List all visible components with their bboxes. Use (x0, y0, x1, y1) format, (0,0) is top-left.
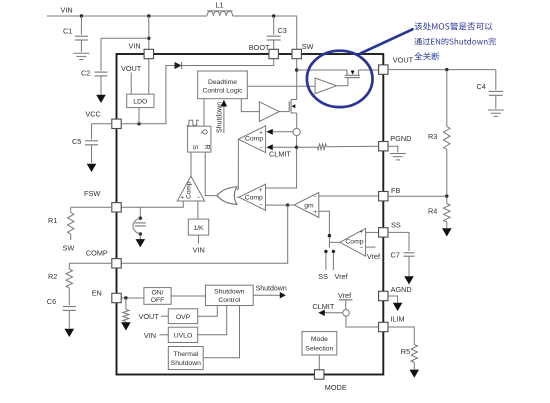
node SS select contact (324, 250, 327, 253)
svg-text:AGND: AGND (391, 285, 412, 294)
wire clmit net to minus arrow (273, 146, 297, 148)
svg-text:UVLO: UVLO (174, 333, 193, 340)
svg-text:VOUT: VOUT (121, 64, 142, 73)
svg-text:C2: C2 (81, 69, 90, 78)
wire ILIM pin to R5 (388, 327, 414, 345)
wire SW node to rectifier fet drain (297, 69, 347, 71)
ground earth below C1 (73, 52, 89, 54)
wire VOUT label to OVP (161, 315, 168, 317)
svg-text:COMP: COMP (86, 248, 108, 257)
pin VOUT (379, 65, 388, 74)
pin COMP (112, 259, 121, 268)
capacitor C1 (75, 16, 88, 52)
node junction clmit tap on sense line (295, 146, 298, 149)
node junction VOUT/R3 (445, 68, 448, 71)
svg-text:−: − (313, 194, 317, 200)
svg-text:Vref: Vref (367, 252, 381, 261)
amplifier gm error amp (points left) (294, 192, 319, 217)
capacitor C2 (95, 38, 149, 94)
svg-text:C1: C1 (63, 27, 72, 36)
blue highlight ellipse around rectifier MOSFET (307, 51, 373, 107)
inductor L1 (207, 11, 233, 16)
svg-text:Comp: Comp (345, 238, 363, 245)
wire rectifier fet source to VOUT pin (359, 69, 379, 71)
svg-text:Vref: Vref (338, 291, 352, 300)
pin AGND (379, 291, 388, 300)
svg-text:ILIM: ILIM (390, 315, 404, 324)
svg-text:SS: SS (391, 220, 401, 229)
wire VIN top rail left of L1 (47, 15, 207, 17)
svg-text:OFF: OFF (151, 297, 165, 304)
svg-text:L1: L1 (216, 1, 224, 10)
annotation Chinese text line 2 (414, 38, 495, 46)
wire SS contact stub (325, 253, 327, 270)
current source circle CLMIT (343, 310, 350, 317)
wire EN pin to ON/OFF (121, 297, 144, 299)
Deadtime Control Logic block (198, 71, 248, 99)
svg-text:Vref: Vref (335, 272, 349, 281)
svg-text:BOOT: BOOT (249, 43, 270, 52)
node junction on gm plus line (328, 234, 331, 237)
svg-text:VIN: VIN (129, 42, 141, 51)
block 1/K VIN feedforward (188, 219, 208, 235)
pin VCC (112, 119, 121, 128)
wire mode selection to MODE pin (318, 355, 320, 370)
svg-text:−: − (259, 203, 263, 209)
block OVP (168, 309, 197, 324)
wire deadtime to rectifier driver input (247, 85, 315, 87)
svg-text:Mode: Mode (311, 336, 328, 343)
wire VOUT label to LDO (130, 73, 132, 95)
wire FSW pin external (71, 206, 112, 208)
svg-text:Deadtime: Deadtime (208, 79, 237, 86)
wire ss comparator plus to SS pin (366, 231, 379, 233)
svg-text:VOUT: VOUT (139, 312, 160, 321)
wire Vref contact stub (332, 253, 334, 270)
svg-text:Shutdown: Shutdown (256, 285, 287, 292)
svg-text:C5: C5 (72, 137, 81, 146)
svg-text:C7: C7 (391, 251, 400, 260)
annotation Chinese text line 3 (414, 52, 439, 60)
wire FB pin to divider (388, 195, 447, 197)
wire VCC pin to C5 (92, 123, 112, 125)
node Vref select contact (332, 250, 335, 253)
ground arrow below C6 (65, 329, 75, 337)
driver buffer switch gate (triangle) (259, 102, 279, 122)
wire VOUT net (388, 69, 496, 71)
resistor R4 (444, 196, 450, 228)
svg-text:+: + (360, 230, 364, 236)
svg-text:Comp: Comp (245, 195, 263, 202)
ground earth at PGND pin (388, 146, 398, 152)
comparator ramp Comp (points up) (177, 176, 204, 201)
node junction C3 branch (272, 14, 275, 17)
annotation Chinese text line 1 (414, 22, 492, 30)
arrow into clmit comparator minus input (266, 144, 273, 150)
node junction C2 tap (147, 37, 150, 40)
svg-text:LDO: LDO (133, 99, 147, 106)
wire SS pin to C7 (388, 232, 409, 251)
pin PGND (379, 142, 388, 151)
wire ss comparator output to gm plus line (329, 241, 339, 243)
wire ss comparator minus stub Vref (366, 246, 376, 248)
block Shutdown Control (206, 285, 254, 305)
wire top rail right of L1 down to SW pin (233, 16, 297, 49)
wire clmit source to ILIM pin (346, 316, 379, 327)
wire latch S input from ramp comparator (190, 152, 192, 176)
capacitor C5 (85, 124, 98, 163)
svg-text:CLMIT: CLMIT (269, 149, 291, 158)
ground arrow at AGND pin (388, 296, 398, 303)
ground arrow below C5 (87, 164, 97, 172)
ground arrow below ramp capacitor (136, 239, 146, 247)
pin VIN (144, 49, 153, 58)
svg-text:R4: R4 (428, 207, 437, 216)
wire pwm minus to COMP net (266, 204, 288, 206)
IC block body outline (117, 54, 384, 375)
wire Thermal Shutdown to shutdown control (203, 306, 239, 358)
svg-text:Q: Q (201, 129, 208, 135)
LDO regulator U-LDO (127, 94, 154, 107)
current sense source circle (293, 128, 300, 135)
svg-text:Shutdown: Shutdown (217, 102, 224, 133)
resistor R3 (444, 70, 450, 197)
transistor Q-rect synchronous rectifier MOSFET (345, 70, 360, 78)
svg-text:ON/: ON/ (151, 289, 163, 296)
svg-text:R2: R2 (48, 272, 57, 281)
capacitor C7 (404, 253, 415, 276)
resistor internal sense to PGND (297, 144, 379, 150)
svg-text:OVP: OVP (176, 314, 191, 321)
svg-text:−: − (259, 146, 263, 152)
svg-text:R5: R5 (401, 347, 410, 356)
wire FSW pin to ramp comparator plus input (121, 201, 183, 207)
Vref supply bar (339, 299, 353, 301)
wire sense circle to clmit plus arrow (273, 131, 293, 133)
resistor EN pulldown (123, 298, 129, 322)
pin ILIM (379, 322, 388, 331)
pin FB (379, 192, 388, 201)
svg-text:Thermal: Thermal (173, 351, 198, 358)
svg-text:FB: FB (391, 186, 400, 195)
block UVLO (168, 327, 197, 342)
resistor R5 (411, 345, 417, 370)
wire pwm comparator output to OR gate (237, 196, 239, 198)
wire 1/K to ramp comparator minus input (197, 201, 199, 219)
wire 1/K input stub (198, 235, 200, 243)
wire gm plus down to soft-start select (319, 211, 330, 248)
capacitor C4 (489, 70, 503, 109)
svg-text:C6: C6 (47, 297, 56, 306)
svg-text:EN: EN (92, 288, 102, 297)
node junction EN pulldown (124, 296, 127, 299)
comparator soft-start Comp (points left) (340, 228, 366, 256)
wire sense circle down to pwm comparator plus (266, 136, 297, 188)
pin SS (379, 228, 388, 237)
svg-text:+: + (181, 196, 185, 202)
block Mode Selection (302, 332, 337, 355)
SR latch U-latch (188, 126, 211, 152)
svg-text:C4: C4 (477, 82, 486, 91)
ground earth below C4 (488, 109, 504, 111)
svg-text:PGND: PGND (390, 134, 411, 143)
resistor R1 (68, 207, 74, 240)
svg-text:1/K: 1/K (193, 225, 204, 232)
svg-text:VIN: VIN (193, 246, 205, 255)
wire clmit comparator output to OR gate (237, 139, 239, 189)
svg-text:Shutdown: Shutdown (171, 360, 201, 367)
wire SW pin down into IC (296, 59, 298, 100)
svg-text:Comp: Comp (186, 181, 193, 199)
svg-text:+: + (259, 131, 263, 137)
pin EN (112, 293, 121, 302)
signal CLMIT output arrow (312, 302, 342, 316)
wire deadtime to switch driver input (241, 99, 259, 112)
node junction LDO/VCC (137, 122, 140, 125)
block Thermal Shutdown (168, 347, 203, 370)
node junction SW internal (295, 68, 298, 71)
wire ON/OFF to Shutdown Control (171, 295, 205, 297)
wire tap down to ramp capacitor (139, 207, 141, 216)
wire rectifier driver output to gate (336, 78, 348, 86)
comparator current-limit Comp (points left) (238, 126, 265, 153)
svg-text:C3: C3 (278, 26, 287, 35)
wire VIN pin drop (148, 16, 150, 49)
svg-text:VOUT: VOUT (393, 55, 414, 64)
wire OVP to shutdown control (198, 306, 218, 317)
transistor Q-sw low-side MOSFET (279, 100, 297, 114)
ground arrow below C2 (96, 95, 106, 103)
signal Shutdown output arrow (253, 285, 287, 298)
svg-text:R1: R1 (48, 216, 57, 225)
resistor R2 (66, 263, 72, 305)
svg-text:R3: R3 (428, 132, 437, 141)
svg-text:S: S (191, 145, 198, 150)
wire COMP pin external (69, 262, 112, 264)
driver buffer rectifier gate (triangle) (315, 78, 336, 94)
node junction VIN/C1 (80, 14, 83, 17)
signal Shutdown arrow into deadtime block (217, 100, 228, 133)
svg-text:VCC: VCC (85, 110, 100, 119)
wire LDO output to VCC node (138, 108, 140, 124)
wire UVLO to shutdown control (198, 306, 227, 335)
svg-text:gm: gm (304, 203, 314, 210)
pin FSW (112, 203, 121, 212)
node junction FB divider (445, 195, 448, 198)
svg-text:VIN: VIN (61, 6, 73, 15)
wire COMP net down and to COMP pin (121, 205, 288, 263)
diode D1 boot diode (175, 62, 182, 69)
svg-text:−: − (197, 195, 201, 201)
node junction COMP net (286, 203, 289, 206)
pin MODE (315, 370, 324, 379)
pin SW (292, 49, 301, 58)
svg-text:Control: Control (218, 297, 240, 304)
svg-text:FSW: FSW (84, 189, 100, 198)
block ON/OFF (144, 288, 171, 305)
svg-text:Comp: Comp (245, 136, 263, 143)
svg-text:+: + (313, 210, 317, 216)
svg-text:SS: SS (318, 272, 328, 281)
wire Vref bar to current source circle (345, 300, 347, 310)
svg-text:−: − (360, 245, 364, 251)
capacitor C6 (63, 307, 76, 329)
wire sw fet source to sense circle (296, 113, 298, 128)
ramp capacitor with reset switch (133, 217, 146, 240)
svg-text:Control Logic: Control Logic (202, 88, 243, 95)
wire latch Q to deadtime logic (203, 99, 205, 127)
wire VIN pin to LDO (148, 59, 150, 94)
pin BOOT (269, 49, 278, 58)
wire gm output to COMP node (288, 204, 294, 206)
OR gate U-or (points left) (217, 187, 237, 205)
svg-text:Shutdown: Shutdown (214, 288, 244, 295)
wire VCC to LDO output junction and up to boot diode (121, 66, 174, 124)
svg-text:Selection: Selection (305, 345, 333, 352)
svg-text:VIN: VIN (144, 331, 156, 340)
ground arrow below EN pulldown (121, 322, 131, 330)
ground arrow below R4 (442, 228, 452, 236)
svg-text:SW: SW (63, 244, 75, 253)
svg-text:+: + (259, 188, 263, 194)
ground arrow below C7 (404, 276, 414, 284)
svg-text:CLMIT: CLMIT (312, 302, 334, 311)
comparator PWM Comp (points left) (239, 184, 266, 210)
node junction VIN/pin branch (147, 14, 150, 17)
wire gm minus to FB pin (319, 195, 379, 197)
wire boot diode to BOOT pin (182, 59, 274, 66)
arrow into clmit comparator plus input (266, 129, 273, 135)
svg-text:R: R (203, 144, 210, 149)
svg-text:MODE: MODE (325, 383, 347, 392)
ground arrow below R5 (410, 370, 420, 378)
blue callout line (361, 29, 413, 53)
capacitor C3 (267, 16, 281, 49)
svg-text:SW: SW (302, 42, 314, 51)
wire VIN label to UVLO (160, 334, 169, 336)
wire latch R input from OR gate (205, 152, 217, 196)
oscillator clock pulse symbol (187, 120, 200, 125)
